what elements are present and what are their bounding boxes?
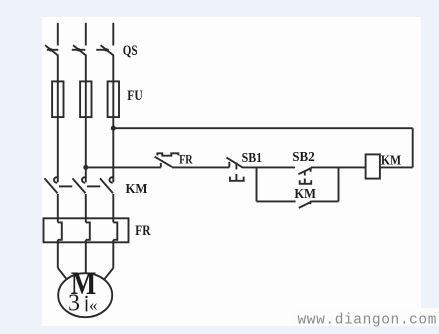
wire: holding branch bottom left [257,200,296,202]
svg-text:FR: FR [135,223,151,239]
wire: phase L1 incoming [57,23,59,46]
node: control tap on L3 [111,126,116,131]
wire: phase L3 FR to motor [104,240,113,279]
node: control tap on L2 [83,165,88,170]
contactor KM main contact pole 2 [73,177,101,193]
wire: phase L3 incoming [112,23,114,46]
wire: phase L3 from QS to KM contact [112,56,114,183]
wire: phase L3 KM contact to FR heater [112,194,114,222]
label KM main contacts [126,182,148,197]
wire: phase L2 incoming [85,23,87,46]
label FR heater [135,223,151,239]
thermal relay FR NC contact [155,153,179,167]
svg-text:KM: KM [381,152,402,167]
wire: holding branch left drop [256,167,258,201]
svg-text:SB1: SB1 [242,150,263,165]
svg-text:KM: KM [126,182,148,197]
disconnect switch QS pole 1 [45,45,58,56]
contactor KM main contact pole 3 [100,177,113,193]
fuse FU pole 1 [52,81,63,117]
svg-text:FU: FU [127,88,143,104]
svg-text:3: 3 [68,291,80,317]
label QS [123,43,138,59]
wire: holding branch bottom right [310,200,338,202]
fuse FU pole 3 [108,81,119,117]
svg-text:QS: QS [123,43,138,59]
fuse FU pole 2 [80,81,91,117]
thermal overload FR heater block [44,218,129,242]
wire: control bus from L3 node [113,128,412,167]
svg-text:FR: FR [179,151,193,166]
svg-text:KM: KM [294,186,316,201]
contactor KM main contact pole 1 [45,177,73,193]
wire: phase L1 from QS to KM contact [57,56,59,183]
wire: holding branch right rise [338,167,340,201]
pushbutton SB2 (NO start) [298,167,311,183]
motor text 3~ [68,291,98,317]
label FR contact [179,151,193,166]
wire: phase L2 from QS to KM contact [85,56,87,183]
disconnect switch QS pole 2 [72,45,87,56]
label SB2 [292,149,315,164]
label FU [127,88,143,104]
label KM coil [381,152,402,167]
disconnect switch QS pole 3 [96,45,114,56]
motor letter M [71,264,97,301]
wire: FR contact to SB1 [172,166,229,168]
svg-text:www.diangon.com: www.diangon.com [298,313,438,329]
watermark www.diangon.com [292,308,439,329]
wire: phase L1 FR to motor [58,240,67,279]
label KM aux contact [294,186,316,201]
wire: control line L2 node to FR contact [86,166,161,168]
motor M circle [58,273,112,317]
wire: SB2 to KM coil [311,166,366,168]
wire: phase L1 KM contact to FR heater [57,194,59,222]
svg-text:«: « [89,296,98,315]
contactor KM auxiliary NO contact [299,201,311,208]
contactor coil KM [366,154,380,178]
wire: phase L2 FR to motor [85,240,87,274]
svg-text:SB2: SB2 [292,149,315,164]
label SB1 [242,150,263,165]
wire: phase L2 KM contact to FR heater [85,194,87,222]
pushbutton SB1 (NC stop) [227,158,244,181]
wire: SB1 to SB2 [243,166,296,168]
